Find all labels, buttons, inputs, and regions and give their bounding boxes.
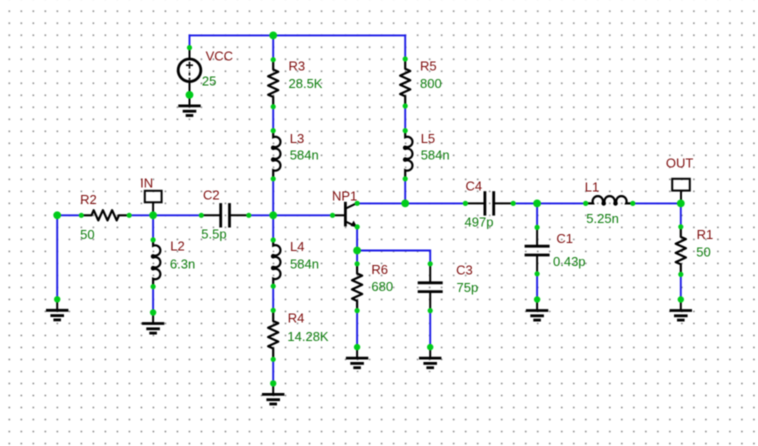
ground below VCC xyxy=(178,95,200,116)
wire R5 to L5 xyxy=(404,106,406,131)
pin L5.1 xyxy=(403,128,408,133)
svg-text:5.5p: 5.5p xyxy=(201,227,226,242)
resistor R5 xyxy=(400,59,410,106)
svg-text:5.25n: 5.25n xyxy=(586,211,619,226)
resistor R4 xyxy=(268,310,278,359)
svg-text:25: 25 xyxy=(202,74,216,89)
svg-text:L5: L5 xyxy=(421,131,435,146)
pin L4.1 xyxy=(271,237,276,242)
node R4 ground node xyxy=(270,380,276,386)
wire rail to R5 xyxy=(404,34,406,59)
svg-text:497p: 497p xyxy=(465,215,494,230)
wire node D to C1 xyxy=(536,203,538,227)
pin L2.1 xyxy=(151,237,156,242)
svg-text:14.28K: 14.28K xyxy=(287,329,329,344)
capacitor C4 xyxy=(465,191,513,215)
svg-text:R2: R2 xyxy=(80,192,97,207)
resistor R1 xyxy=(676,227,686,275)
pin R1.2 xyxy=(678,272,683,277)
node L2 ground node xyxy=(150,309,156,315)
node junction VCC-/ground xyxy=(186,91,194,99)
pin L2.2 xyxy=(151,284,156,289)
capacitor C2 xyxy=(201,203,249,227)
svg-text:C4: C4 xyxy=(466,178,483,193)
ground left input xyxy=(46,299,68,320)
node R1 ground node xyxy=(678,296,684,302)
resistor R6 xyxy=(352,264,362,311)
terminal IN xyxy=(145,191,162,216)
svg-text:R1: R1 xyxy=(697,227,714,242)
svg-text:0.43p: 0.43p xyxy=(553,254,586,269)
svg-text:C3: C3 xyxy=(456,263,473,278)
wire L4 to R4 xyxy=(272,286,274,310)
svg-text:28.5K: 28.5K xyxy=(289,76,323,91)
wire corner down to C3 xyxy=(429,250,431,264)
ground below C1 xyxy=(526,300,548,321)
svg-text:L2: L2 xyxy=(170,239,184,254)
wire node B to L4 xyxy=(272,215,274,240)
wire C4 to L1 xyxy=(513,202,586,204)
pin C4.2 xyxy=(511,201,516,206)
transistor NP1 xyxy=(333,202,358,227)
svg-text:6.3n: 6.3n xyxy=(170,256,195,271)
pin L3.2 xyxy=(271,176,276,181)
inductor L1 xyxy=(586,196,633,204)
node junction IN node xyxy=(149,211,157,219)
wire node E to C3 branch xyxy=(357,250,430,252)
pin R4.1 xyxy=(271,308,276,313)
svg-text:NP1: NP1 xyxy=(332,189,357,204)
pin L5.2 xyxy=(403,176,408,181)
pin C4.1 xyxy=(463,201,468,206)
pin R2.2 xyxy=(127,213,132,218)
wire C1 to ground xyxy=(536,274,538,300)
inductor L5 xyxy=(404,131,412,179)
wire IN node to L2 xyxy=(152,215,154,240)
node junction emitter node xyxy=(353,247,361,255)
pin L4.2 xyxy=(271,284,276,289)
node C1 ground node xyxy=(534,296,540,302)
pin L1.1 xyxy=(583,201,588,206)
wire R2 to C2 through IN node xyxy=(129,214,201,216)
wire OUT node to R1 xyxy=(680,203,682,226)
pin C2.1 xyxy=(199,213,204,218)
svg-text:L3: L3 xyxy=(290,131,304,146)
pin VCC+ xyxy=(187,45,192,50)
wire R1 to ground xyxy=(680,274,682,299)
capacitor C1 xyxy=(525,227,550,273)
node junction L5/output rail xyxy=(401,200,409,208)
pin L3.1 xyxy=(271,128,276,133)
svg-text:584n: 584n xyxy=(290,148,319,163)
pin NP1 collector xyxy=(355,201,360,206)
pin C3.1 xyxy=(428,261,433,266)
ground below R1 xyxy=(670,300,692,321)
resistor R2 xyxy=(81,210,129,220)
pin R1.1 xyxy=(678,224,683,229)
pin C1.1 xyxy=(535,225,540,230)
inductor L3 xyxy=(272,131,280,179)
wire R3 to L3 xyxy=(272,107,274,131)
pin R2.1 xyxy=(79,213,84,218)
ground below R4 xyxy=(262,383,284,404)
svg-text:C2: C2 xyxy=(203,188,220,203)
svg-text:C1: C1 xyxy=(556,231,573,246)
pin R6.1 xyxy=(355,261,360,266)
svg-text:75p: 75p xyxy=(457,280,479,295)
pin R6.2 xyxy=(355,308,360,313)
ground below C3 xyxy=(419,347,441,368)
node junction rail/R3 xyxy=(269,32,277,40)
svg-text:R3: R3 xyxy=(289,58,306,73)
svg-text:584n: 584n xyxy=(290,257,319,272)
svg-text:R5: R5 xyxy=(420,58,437,73)
wire emitter to node E xyxy=(356,227,358,251)
svg-text:R6: R6 xyxy=(371,262,388,277)
svg-text:50: 50 xyxy=(696,245,710,260)
pin C1.2 xyxy=(535,271,540,276)
wire C2 to NP1 base through node B xyxy=(249,214,333,216)
node junction C1 tap xyxy=(533,200,541,208)
inductor L2 xyxy=(152,240,160,287)
pin R5.2 xyxy=(403,103,408,108)
svg-text:OUT: OUT xyxy=(666,156,694,171)
pin R3.2 xyxy=(271,104,276,109)
svg-text:L4: L4 xyxy=(290,239,304,254)
pin R3.1 xyxy=(271,57,276,62)
wire L5 to output rail xyxy=(404,179,406,204)
svg-text:680: 680 xyxy=(371,279,393,294)
svg-text:L1: L1 xyxy=(585,180,599,195)
svg-text:R4: R4 xyxy=(288,310,305,325)
node C3 ground node xyxy=(427,344,433,350)
node R6 ground node xyxy=(354,344,360,350)
ground below R6 xyxy=(346,347,368,368)
node junction input corner xyxy=(53,211,61,219)
pin NP1 emitter xyxy=(355,224,360,229)
battery VCC xyxy=(178,48,201,95)
wire VCC top drop xyxy=(189,34,191,47)
terminal OUT xyxy=(672,179,690,204)
wire L3 to node B xyxy=(272,179,274,216)
pin R5.1 xyxy=(403,56,408,61)
node left ground node xyxy=(54,296,60,302)
wire L1 to OUT node xyxy=(633,202,681,204)
svg-text:IN: IN xyxy=(140,176,153,191)
pin L1.2 xyxy=(630,201,635,206)
pin R4.2 xyxy=(271,357,276,362)
wire left end to R2 xyxy=(57,214,81,216)
capacitor C3 xyxy=(418,264,443,311)
svg-text:VCC: VCC xyxy=(206,49,233,64)
svg-text:50: 50 xyxy=(80,227,94,242)
ground below L2 xyxy=(142,313,164,334)
node junction OUT node xyxy=(677,200,685,208)
node junction node B xyxy=(269,211,277,219)
inductor L4 xyxy=(272,240,280,286)
wire R4 to ground xyxy=(272,359,274,383)
wire node E to R6 xyxy=(356,251,358,264)
wire top VCC rail xyxy=(190,34,406,36)
wire rail to R3 xyxy=(272,35,274,59)
pin C3.2 xyxy=(428,308,433,313)
wire R6 to ground xyxy=(356,311,358,348)
wire L2 to ground xyxy=(152,287,154,313)
wire C3 to ground xyxy=(429,311,431,348)
wire collector rail to C4 xyxy=(357,202,465,204)
pin NP1 base xyxy=(330,213,335,218)
pin C2.2 xyxy=(246,213,251,218)
svg-text:800: 800 xyxy=(420,76,442,91)
svg-text:584n: 584n xyxy=(421,148,450,163)
resistor R3 xyxy=(268,60,278,107)
wire left drop to ground xyxy=(56,214,58,299)
